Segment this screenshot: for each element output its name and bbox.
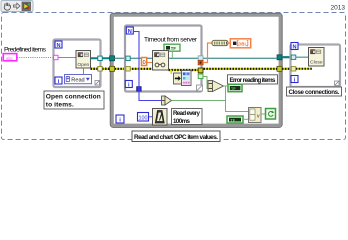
svg-text:N: N bbox=[128, 29, 132, 35]
svg-text:abc: abc bbox=[6, 56, 14, 61]
svg-text:Error reading items: Error reading items bbox=[230, 77, 277, 84]
svg-text:N: N bbox=[56, 43, 60, 49]
svg-text:N: N bbox=[292, 44, 296, 50]
svg-text:DBL: DBL bbox=[238, 42, 247, 47]
svg-text:Read and chart OPC item values: Read and chart OPC item values. bbox=[134, 134, 218, 141]
svg-text:Read: Read bbox=[71, 78, 84, 84]
svg-text:v: v bbox=[257, 114, 260, 120]
svg-text:TF: TF bbox=[171, 46, 177, 51]
svg-text:Predefined items: Predefined items bbox=[4, 47, 47, 54]
svg-text:to items.: to items. bbox=[46, 102, 74, 109]
svg-text:2013: 2013 bbox=[331, 4, 346, 11]
svg-text:Close: Close bbox=[310, 59, 323, 65]
svg-text:TF: TF bbox=[230, 118, 235, 122]
svg-text:Timeout from server: Timeout from server bbox=[144, 37, 198, 44]
svg-text:Read every: Read every bbox=[173, 110, 201, 117]
svg-text:100ms: 100ms bbox=[173, 118, 191, 125]
svg-text:Close connections.: Close connections. bbox=[289, 89, 340, 96]
svg-text:0: 0 bbox=[143, 60, 146, 66]
svg-text:Open connection: Open connection bbox=[46, 94, 101, 101]
svg-text:Open: Open bbox=[77, 62, 89, 68]
svg-text:TF: TF bbox=[231, 87, 236, 91]
svg-text:100: 100 bbox=[139, 115, 148, 121]
